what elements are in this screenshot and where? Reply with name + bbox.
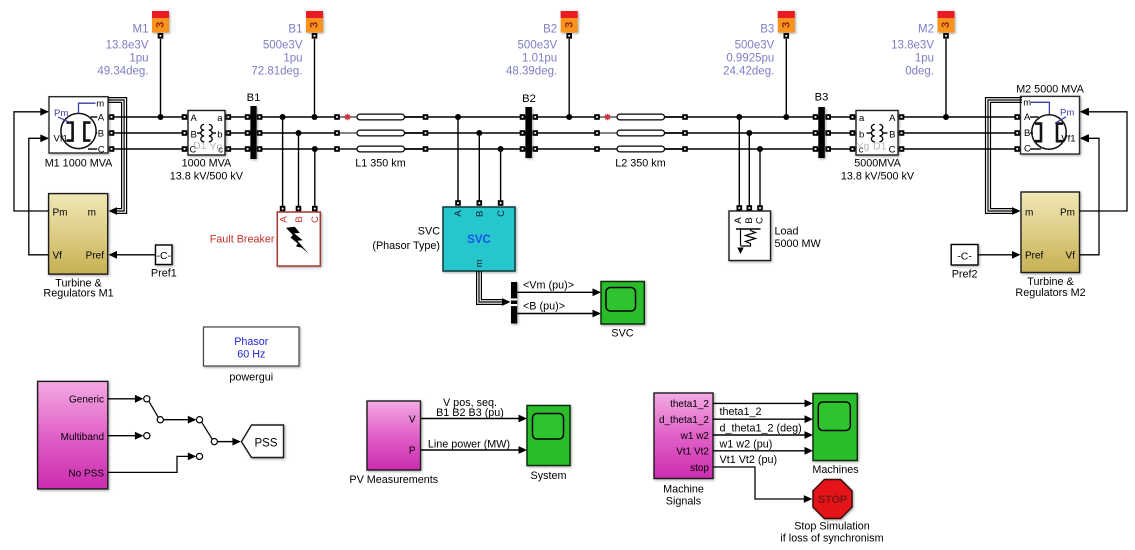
label turbine M2: [1015, 276, 1085, 299]
svg-text:A: A: [1024, 112, 1031, 123]
svg-text:B: B: [475, 211, 486, 217]
label bus B1: [247, 92, 261, 104]
svg-text:Vf1: Vf1: [54, 134, 68, 145]
svg-text:M1 1000 MVA: M1 1000 MVA: [45, 158, 113, 170]
node B1 tap: [312, 114, 318, 120]
svg-text:Regulators M2: Regulators M2: [1015, 287, 1085, 299]
svg-text:d_theta1_2: d_theta1_2: [659, 415, 709, 426]
svg-text:B: B: [98, 128, 104, 139]
label Load: [775, 225, 822, 250]
svg-text:PV Measurements: PV Measurements: [349, 474, 438, 486]
svg-text:a: a: [217, 113, 223, 124]
svg-text:500e3V: 500e3V: [518, 40, 558, 52]
label d_theta1_2 (deg): [720, 422, 802, 434]
svg-text:theta1_2: theta1_2: [670, 399, 709, 410]
svg-text:B2: B2: [522, 93, 536, 105]
svg-text:A: A: [733, 217, 744, 224]
svg-text:m: m: [96, 98, 104, 109]
svg-text:SVC: SVC: [467, 234, 491, 246]
wire turbine M1 Vf to machine Vf1: [29, 138, 49, 255]
svg-text:B: B: [1024, 128, 1030, 139]
label w1 w2 (pu): [719, 438, 773, 450]
svg-text:B: B: [889, 129, 895, 140]
svg-text:13.8e3V: 13.8e3V: [106, 40, 149, 52]
label B3 values: [723, 24, 774, 78]
label transformer T1: [170, 158, 244, 183]
label scope System: [531, 470, 567, 482]
wire No PSS to open switch: [108, 453, 203, 473]
powergui block: [204, 327, 300, 366]
svg-text:Regulators M1: Regulators M1: [43, 288, 113, 300]
label M2 values: [891, 24, 934, 78]
transformer T1: [188, 111, 225, 156]
label Fault Breaker: [210, 233, 275, 245]
svg-text:b: b: [859, 129, 864, 140]
label V pos seq: [436, 397, 504, 419]
PSS selector block: [38, 381, 108, 489]
svg-text:Vf1: Vf1: [1061, 133, 1075, 144]
label Line power: [428, 438, 510, 450]
svg-text:A: A: [453, 210, 464, 217]
svg-text:w1 w2 (pu): w1 w2 (pu): [719, 438, 773, 450]
svg-text:Machines: Machines: [812, 464, 859, 476]
label Pref2: [952, 268, 978, 280]
svg-text:5000MVA: 5000MVA: [854, 158, 901, 170]
breaker Fault Breaker: [277, 212, 321, 266]
svg-text:Stop Simulation: Stop Simulation: [794, 521, 870, 533]
svg-text:Pm: Pm: [53, 208, 68, 219]
node B3 tap: [783, 114, 789, 120]
svg-text:theta1_2: theta1_2: [720, 406, 762, 418]
label machine M2: [1016, 83, 1084, 95]
label Vt1 Vt2 (pu): [720, 454, 778, 466]
constant Pref2: [951, 245, 978, 266]
bus B3: [818, 107, 825, 158]
svg-text:Generic: Generic: [69, 394, 104, 405]
svg-text:C: C: [889, 145, 896, 156]
STOP simulation block: [813, 480, 852, 519]
svg-text:Signals: Signals: [666, 495, 702, 507]
svg-text:72.81deg.: 72.81deg.: [251, 66, 302, 78]
svg-text:C: C: [98, 144, 105, 155]
display B1 measurement: [306, 11, 323, 117]
wire B to scope SVC: [517, 310, 601, 318]
svg-text:m: m: [1025, 207, 1033, 218]
transformer T2: [856, 111, 898, 156]
wire phase A: [108, 116, 1021, 118]
wire SVC taps: [455, 114, 504, 206]
svg-text:48.39deg.: 48.39deg.: [506, 66, 557, 78]
label B signal: [523, 301, 565, 313]
label B2 values: [506, 24, 557, 78]
tag PSS: [242, 425, 284, 458]
svg-text:Pm: Pm: [54, 108, 68, 119]
svg-text:Pm: Pm: [1060, 207, 1075, 218]
svg-text:Load: Load: [775, 225, 799, 237]
svg-text:Phasor: Phasor: [234, 336, 269, 348]
svg-text:Yg: Yg: [210, 141, 223, 153]
svg-text:500e3V: 500e3V: [735, 40, 775, 52]
label machine M1: [45, 158, 113, 170]
svg-text:Multiband: Multiband: [61, 432, 104, 443]
svg-text:-C-: -C-: [157, 250, 172, 262]
svg-text:SVC: SVC: [418, 225, 440, 237]
load Load 5000 MW: [729, 211, 771, 261]
label Vm signal: [523, 279, 574, 291]
turbine & regulators M1: [49, 194, 108, 275]
svg-text:B1 B2 B3 (pu): B1 B2 B3 (pu): [436, 407, 504, 419]
svg-text:M2 5000 MVA: M2 5000 MVA: [1016, 83, 1084, 95]
svg-text:500e3V: 500e3V: [263, 40, 303, 52]
line L2 350 km: [600, 114, 682, 152]
svg-text:<Vm (pu)>: <Vm (pu)>: [523, 279, 574, 291]
svg-text:b: b: [217, 129, 222, 140]
svg-text:V: V: [409, 414, 416, 425]
svg-text:3: 3: [563, 22, 575, 28]
svg-text:1000 MVA: 1000 MVA: [182, 158, 232, 170]
svg-text:Machine: Machine: [663, 483, 704, 495]
label powergui: [229, 371, 273, 383]
svg-text:C: C: [755, 217, 766, 224]
label Pref1: [151, 268, 177, 280]
display B3 measurement: [778, 11, 795, 117]
svg-text:A: A: [191, 113, 198, 124]
wire m bundle machine M1 to turbine M1: [108, 98, 127, 215]
svg-text:<B (pu)>: <B (pu)>: [523, 301, 565, 313]
svg-text:3: 3: [781, 22, 793, 28]
wire Pref2 to turbine M2: [978, 251, 1021, 259]
svg-text:Vt1 Vt2: Vt1 Vt2: [676, 447, 709, 458]
svg-text:M1: M1: [133, 24, 149, 36]
svg-text:C: C: [496, 210, 507, 217]
svg-text:m: m: [474, 259, 485, 267]
svg-text:0.9925pu: 0.9925pu: [726, 53, 774, 65]
wire fault breaker taps: [280, 114, 318, 211]
svg-text:49.34deg.: 49.34deg.: [97, 66, 148, 78]
svg-text:24.42deg.: 24.42deg.: [723, 66, 774, 78]
label PV Measurements: [349, 474, 438, 486]
display M1 measurement: [152, 11, 169, 117]
Machine Signals block: [654, 393, 713, 479]
svg-text:B: B: [191, 129, 197, 140]
svg-text:(Phasor Type): (Phasor Type): [372, 240, 440, 252]
svg-text:B1: B1: [288, 24, 302, 36]
svg-text:powergui: powergui: [229, 371, 273, 383]
bus B2: [525, 107, 532, 158]
svg-text:3: 3: [940, 22, 952, 28]
label theta1_2: [720, 406, 762, 418]
svg-text:Pref1: Pref1: [151, 268, 177, 280]
svg-text:L2 350 km: L2 350 km: [615, 158, 665, 170]
svg-text:A: A: [889, 113, 896, 124]
svg-text:1.01pu: 1.01pu: [522, 53, 557, 65]
PV Measurements block: [367, 401, 421, 470]
label B1 values: [251, 24, 302, 78]
SVC block: [443, 207, 515, 271]
svg-text:C: C: [310, 216, 321, 223]
svg-text:stop: stop: [690, 463, 709, 474]
machine M2: [1021, 96, 1089, 154]
svg-text:d_theta1_2 (deg): d_theta1_2 (deg): [720, 422, 802, 434]
label bus B2: [522, 93, 536, 105]
svg-text:a: a: [859, 113, 865, 124]
wire phase C: [108, 148, 1021, 150]
svg-text:if loss of synchronism: if loss of synchronism: [780, 533, 883, 545]
wire load taps: [736, 114, 763, 211]
bus B1: [250, 106, 256, 159]
node M1 tap: [158, 114, 164, 120]
svg-text:No PSS: No PSS: [68, 468, 104, 479]
svg-text:D1: D1: [193, 140, 207, 152]
svg-text:Line power (MW): Line power (MW): [428, 438, 510, 450]
wire phase B: [108, 132, 1021, 134]
wire Generic through switches to PSS: [108, 395, 241, 446]
svg-text:Pm: Pm: [1060, 107, 1074, 118]
label Machine Signals: [663, 483, 704, 507]
wire Multiband to open switch: [108, 432, 150, 440]
svg-text:1pu: 1pu: [283, 53, 302, 65]
scope Machines: [813, 394, 857, 461]
svg-text:B1: B1: [247, 92, 261, 104]
svg-text:Vt1 Vt2 (pu): Vt1 Vt2 (pu): [720, 454, 778, 466]
wire turbine M2 Vf to machine Vf1: [1080, 134, 1100, 254]
wire turbine M1 Pm to machine Pm: [14, 112, 49, 211]
svg-text:Vf: Vf: [1066, 250, 1076, 261]
svg-text:0deg.: 0deg.: [905, 66, 934, 78]
svg-text:B: B: [294, 216, 305, 222]
svg-text:STOP: STOP: [818, 494, 847, 506]
label SVC phasor type: [372, 225, 440, 252]
label scope SVC: [611, 327, 633, 339]
wire P to scope System: [421, 446, 528, 454]
wire m bundle machine M2 to turbine M2: [986, 98, 1023, 215]
svg-text:3: 3: [155, 22, 167, 28]
svg-text:1pu: 1pu: [915, 53, 934, 65]
bus selector SVC signals: [511, 282, 517, 324]
wire V to scope System: [421, 415, 528, 423]
label bus B3: [815, 92, 829, 104]
node B2 tap: [566, 114, 572, 120]
label turbine M1: [43, 278, 113, 300]
display B2 measurement: [561, 11, 578, 117]
svg-text:SVC: SVC: [611, 327, 633, 339]
svg-text:w1 w2: w1 w2: [680, 431, 710, 442]
display M2 measurement: [938, 11, 955, 117]
label scope Machines: [812, 464, 859, 476]
wire Vt1 Vt2 (pu) to scope Machines: [713, 447, 813, 455]
wire Vm to scope SVC: [517, 288, 601, 296]
wire theta1_2 to scope Machines: [713, 400, 813, 408]
label L2: [615, 158, 665, 170]
label M1 values: [97, 24, 148, 78]
svg-text:Pref: Pref: [1025, 250, 1044, 261]
svg-text:A: A: [98, 112, 105, 123]
label L1: [355, 158, 405, 170]
node M2 tap: [943, 114, 949, 120]
svg-text:5000 MW: 5000 MW: [775, 238, 822, 250]
machine M1: [40, 97, 108, 156]
svg-text:A: A: [278, 216, 289, 223]
svg-text:3: 3: [309, 22, 321, 28]
svg-text:Fault Breaker: Fault Breaker: [210, 233, 275, 245]
line L1 350 km: [340, 114, 423, 152]
wire stop to STOP block: [713, 467, 812, 503]
svg-text:13.8e3V: 13.8e3V: [891, 40, 934, 52]
label transformer T2: [841, 158, 915, 183]
svg-text:m: m: [88, 208, 96, 219]
svg-text:C: C: [1024, 144, 1031, 155]
wire SVC m to bus selector: [477, 271, 511, 306]
ports three-phase connections: [109, 114, 1020, 152]
svg-text:60 Hz: 60 Hz: [237, 348, 265, 360]
svg-text:Vf: Vf: [53, 250, 63, 261]
svg-text:M2: M2: [918, 24, 934, 36]
scope SVC: [601, 282, 644, 325]
svg-text:13.8 kV/500 kV: 13.8 kV/500 kV: [170, 171, 244, 183]
svg-text:Pref: Pref: [86, 250, 105, 261]
svg-text:PSS: PSS: [254, 437, 277, 449]
svg-text:m: m: [1023, 97, 1031, 108]
wire turbine M2 Pm to machine Pm: [1080, 108, 1128, 211]
svg-text:Pref2: Pref2: [952, 268, 978, 280]
svg-text:System: System: [531, 470, 567, 482]
svg-text:B2: B2: [543, 24, 557, 36]
svg-text:Yg: Yg: [857, 141, 870, 153]
svg-text:B: B: [744, 217, 755, 223]
wire w1 w2 (pu) to scope Machines: [713, 431, 813, 439]
svg-text:B3: B3: [815, 92, 829, 104]
constant Pref1: [156, 245, 173, 265]
svg-text:P: P: [409, 446, 416, 457]
svg-text:1pu: 1pu: [129, 53, 148, 65]
turbine & regulators M2: [1021, 192, 1080, 273]
wire Pref1 to turbine M1: [109, 251, 156, 259]
svg-text:13.8 kV/500 kV: 13.8 kV/500 kV: [841, 171, 915, 183]
wire d_theta1_2 (deg) to scope Machines: [713, 415, 813, 423]
svg-text:L1 350 km: L1 350 km: [355, 158, 405, 170]
svg-text:B3: B3: [760, 24, 774, 36]
scope System: [527, 406, 570, 466]
svg-text:-C-: -C-: [957, 250, 972, 262]
label Stop Simulation: [780, 521, 883, 545]
